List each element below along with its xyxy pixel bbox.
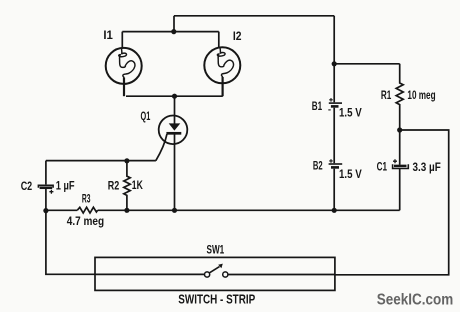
node lamp bottom rail junction bbox=[172, 94, 177, 99]
battery B2 bbox=[329, 159, 343, 210]
wire lamp top rail bbox=[122, 31, 219, 33]
B2 positive plate bbox=[329, 163, 343, 165]
wire left top rail bbox=[46, 160, 156, 162]
lamp I1 envelope bbox=[106, 48, 142, 84]
wire SW1 left bbox=[96, 273, 204, 275]
svg-text:R1: R1 bbox=[381, 90, 392, 102]
wire I1 top lead bbox=[121, 32, 123, 48]
svg-text:Q1: Q1 bbox=[141, 111, 151, 123]
B1 minus mark bbox=[328, 109, 330, 111]
wire B1 junction to R1 bbox=[334, 63, 400, 65]
resistor R2 bbox=[124, 161, 130, 211]
wire C1 top lead bbox=[399, 130, 401, 165]
B1 negative plate bbox=[331, 105, 339, 108]
resistor R1 bbox=[396, 64, 403, 130]
SW1 strip outline bbox=[95, 257, 335, 290]
wire lamp bottom rail bbox=[126, 95, 223, 97]
SW1 left contact bbox=[205, 272, 210, 277]
svg-text:1 µF: 1 µF bbox=[56, 181, 75, 193]
svg-text:1.5 V: 1.5 V bbox=[339, 169, 362, 181]
svg-text:C2: C2 bbox=[21, 181, 33, 193]
node Q1 cathode junction bbox=[172, 208, 177, 213]
wire top horizontal bbox=[174, 15, 334, 17]
wire bottom rail (left of R3) bbox=[46, 209, 77, 211]
svg-text:SW1: SW1 bbox=[207, 245, 225, 257]
Q1 anode lead bbox=[174, 96, 176, 124]
transistor Q1 bbox=[156, 96, 188, 210]
svg-text:I1: I1 bbox=[103, 30, 113, 42]
lamp I2 envelope bbox=[204, 47, 240, 83]
svg-text:SWITCH - STRIP: SWITCH - STRIP bbox=[178, 292, 255, 307]
wire Q1 cathode to bottom rail bbox=[174, 133, 176, 210]
wire right top vertical bbox=[333, 16, 335, 64]
svg-text:1K: 1K bbox=[132, 180, 144, 192]
wire SW1 right bbox=[228, 274, 335, 276]
SW1 right contact bbox=[223, 272, 228, 277]
node battery bottom junction bbox=[332, 208, 337, 213]
svg-text:B1: B1 bbox=[312, 101, 323, 113]
node bottom-left junction bbox=[43, 208, 48, 213]
wire I2 top lead bbox=[218, 32, 220, 48]
lamp I2 bbox=[204, 47, 240, 83]
Q1 cathode bar bbox=[166, 132, 181, 135]
B2 plus mark bbox=[329, 159, 333, 163]
C1 positive plate bbox=[394, 165, 407, 168]
svg-text:SeekIC.com: SeekIC.com bbox=[377, 292, 453, 309]
wire B1 to B2 bbox=[333, 108, 335, 164]
wire C1 bottom lead bbox=[399, 169, 401, 211]
B1 plus mark bbox=[329, 98, 333, 102]
B2 negative plate bbox=[331, 166, 339, 169]
node B1 top junction bbox=[332, 61, 337, 66]
wire C2 top lead bbox=[45, 161, 47, 185]
C1 plus mark bbox=[393, 159, 397, 163]
svg-text:B2: B2 bbox=[313, 161, 323, 173]
C2 plus mark bbox=[49, 190, 53, 194]
wire C2 bottom lead bbox=[45, 189, 47, 210]
wire R1 junction to right edge bbox=[335, 130, 449, 275]
svg-text:R2: R2 bbox=[108, 181, 120, 193]
wire B1 top lead bbox=[333, 64, 335, 103]
svg-text:1.5 V: 1.5 V bbox=[339, 108, 362, 120]
SW1 arm arrowhead bbox=[218, 264, 223, 269]
wire bottom rail (right of R3) bbox=[98, 209, 400, 211]
Q1 envelope bbox=[159, 116, 188, 145]
switch strip SW1 bbox=[95, 257, 335, 290]
svg-text:C1: C1 bbox=[377, 162, 388, 174]
node lamp top rail junction bbox=[171, 29, 176, 34]
svg-text:R3: R3 bbox=[82, 194, 91, 206]
Q1 triangle bbox=[169, 123, 181, 130]
svg-text:3.3 µF: 3.3 µF bbox=[413, 162, 441, 174]
wire B2 bottom lead bbox=[333, 169, 335, 211]
battery B1 bbox=[328, 64, 342, 163]
wire I1 bottom lead bbox=[123, 78, 125, 97]
svg-text:4.7 meg: 4.7 meg bbox=[67, 216, 104, 228]
capacitor C1 bbox=[393, 130, 409, 210]
lamp I2 filament bbox=[217, 48, 233, 81]
node R1 bottom junction bbox=[397, 127, 402, 132]
node R2 bottom junction bbox=[124, 208, 129, 213]
B1 positive plate bbox=[329, 102, 342, 104]
wire I2 bottom lead bbox=[222, 77, 224, 96]
wire top-left vertical bbox=[173, 16, 175, 32]
resistor R3 bbox=[77, 207, 97, 213]
capacitor C2 bbox=[38, 161, 53, 211]
C2 positive plate bbox=[40, 187, 53, 190]
C1 negative plate bbox=[393, 164, 409, 168]
wire left column to switch bbox=[46, 211, 96, 275]
C2 negative plate bbox=[38, 185, 53, 188]
svg-text:I2: I2 bbox=[233, 31, 242, 43]
lamp I1 bbox=[106, 48, 142, 84]
lamp I1 filament bbox=[119, 48, 135, 81]
SW1 arm bbox=[209, 267, 219, 273]
node R2 top junction bbox=[124, 158, 129, 163]
Q1 gate lead bbox=[156, 134, 167, 161]
svg-text:10 meg: 10 meg bbox=[407, 90, 435, 102]
